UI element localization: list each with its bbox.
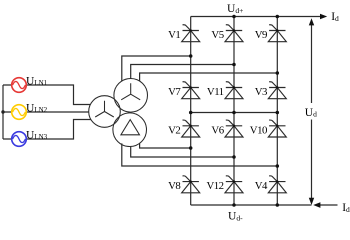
wire delta phase a to column 1	[140, 143, 191, 148]
wire Ud measure upper	[311, 25, 313, 103]
node phase c upper	[276, 71, 280, 75]
node top bus col3	[276, 15, 280, 19]
svg-text:V1: V1	[168, 29, 180, 41]
transformer primary winding (wye)	[89, 96, 121, 128]
node phase b upper	[232, 63, 236, 67]
svg-text:V5: V5	[211, 29, 223, 41]
thyristor V2	[182, 120, 200, 137]
node phase a lower	[189, 146, 193, 150]
thyristor V1	[182, 25, 200, 42]
node middle bus col2	[232, 111, 236, 115]
thyristor V5	[225, 25, 243, 42]
svg-text:V9: V9	[255, 29, 267, 41]
arrow Id out (top right)	[320, 14, 327, 20]
thyristor V8	[182, 176, 200, 193]
thyristor V6	[225, 120, 243, 137]
node bottom bus col3	[276, 203, 280, 207]
wire wye phase b to column 2	[131, 65, 234, 79]
thyristor V11	[225, 82, 243, 99]
node middle bus col3	[276, 111, 280, 115]
svg-text:V3: V3	[255, 86, 267, 98]
thyristor V12	[225, 176, 243, 193]
wire top bus Ud+	[191, 16, 321, 18]
node phase c lower	[276, 164, 280, 168]
source ULN1	[12, 78, 27, 93]
wire source1 leads	[3, 85, 90, 105]
arrow Id in (bottom right)	[313, 202, 320, 208]
wire wye phase c to column 3	[140, 73, 278, 81]
wire Ud measure lower	[311, 120, 313, 199]
svg-text:V2: V2	[168, 124, 180, 136]
transformer secondary winding 2 (delta)	[113, 113, 147, 147]
wire bridge column 1	[190, 17, 192, 206]
svg-text:V11: V11	[207, 86, 224, 98]
node phase b lower	[232, 155, 236, 159]
node neutral junction	[1, 110, 4, 113]
source ULN2	[12, 105, 27, 120]
svg-text:V6: V6	[211, 124, 224, 136]
thyristor V10	[268, 120, 286, 137]
svg-text:V10: V10	[250, 124, 267, 136]
thyristor V4	[268, 176, 286, 193]
node middle bus col1	[189, 111, 193, 115]
svg-text:V8: V8	[168, 180, 180, 192]
thyristor V9	[268, 25, 286, 42]
wire middle bus	[191, 112, 278, 114]
wire Id return lead	[318, 204, 338, 206]
thyristor V3	[268, 82, 286, 99]
arrow Ud lower	[309, 198, 314, 205]
wire bottom bus Ud-	[191, 204, 312, 206]
wire bridge column 3	[276, 17, 278, 206]
node phase a upper	[189, 54, 193, 58]
wire left neutral bus	[2, 85, 4, 139]
node bottom bus col2	[232, 203, 236, 207]
wire bridge column 2	[233, 17, 235, 206]
svg-text:V4: V4	[255, 180, 268, 192]
wire delta phase b to column 2	[131, 147, 234, 158]
svg-text:V12: V12	[206, 180, 223, 192]
node top bus col2	[232, 15, 236, 19]
wire source2 leads	[3, 111, 89, 113]
arrow Ud upper	[309, 18, 314, 25]
transformer secondary winding 1 (wye)	[114, 79, 148, 113]
thyristor V7	[182, 82, 200, 99]
source ULN3	[12, 132, 27, 147]
wire source3 leads	[3, 120, 91, 140]
wire delta phase c to column 3	[122, 143, 277, 166]
svg-text:V7: V7	[168, 86, 181, 98]
wire wye phase a to column 1	[122, 56, 191, 81]
